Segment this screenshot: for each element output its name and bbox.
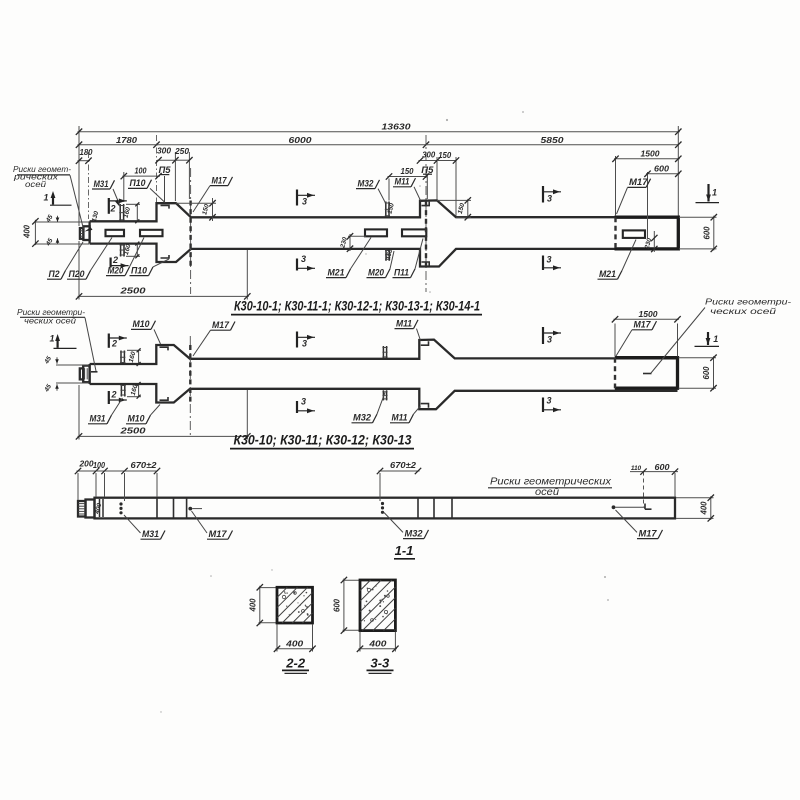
svg-text:150: 150 <box>386 202 396 215</box>
section mark 1 left view1 <box>52 196 54 205</box>
v3 joint line e <box>433 498 435 519</box>
svg-text:М32: М32 <box>358 178 375 189</box>
anchor bolt outer plate <box>83 226 89 240</box>
ext x616 up <box>615 156 617 172</box>
hook P5 top-left collar <box>161 205 170 208</box>
note underline <box>17 174 70 176</box>
ext x456 <box>455 157 457 216</box>
dimension 600 right top <box>646 173 680 175</box>
svg-text:М21: М21 <box>599 269 616 280</box>
slot M20 left <box>106 230 125 236</box>
svg-text:М17: М17 <box>212 175 228 186</box>
slot P10 left <box>140 230 163 236</box>
svg-text:200: 200 <box>78 460 94 469</box>
svg-text:400: 400 <box>23 224 32 239</box>
v3 bar outline <box>95 498 676 519</box>
v3 dim 100 <box>96 470 105 472</box>
svg-text:осей: осей <box>535 486 559 498</box>
svg-text:П11: П11 <box>394 267 409 278</box>
svg-text:1500: 1500 <box>641 149 661 158</box>
svg-text:600: 600 <box>332 598 341 612</box>
extension line right end x678 <box>677 126 679 216</box>
v2 ext x677 up <box>677 324 679 357</box>
section mark 3 lower-right <box>542 256 544 271</box>
v2 ext x247 bottom <box>246 390 248 440</box>
section mark 2 upper view1 <box>108 198 110 214</box>
svg-text:150: 150 <box>401 167 415 176</box>
svg-text:ческих осей: ческих осей <box>710 306 776 316</box>
v2 anchor bolt outer plate <box>83 366 89 383</box>
plate M31 above neck <box>119 204 121 221</box>
svg-text:300: 300 <box>422 150 436 159</box>
svg-text:К30-10; К30-11; К30-12; К30: К30-10; К30-11; К30-12; К30-13 <box>234 432 412 447</box>
dim 150 right of collar <box>467 199 469 219</box>
v2 joint right bold dashes <box>614 358 616 389</box>
v2 plate M32 below shaft <box>382 390 384 400</box>
v2 note leader to bolt <box>85 318 96 371</box>
v2 plate M31 below neck <box>120 384 122 397</box>
column right end face bold <box>615 217 679 249</box>
v2 bolt inner line <box>84 368 86 379</box>
v3 bolt ribbed head <box>78 501 86 517</box>
v2 ext left horizontals <box>56 364 89 366</box>
svg-text:400: 400 <box>700 501 709 516</box>
svg-text:3: 3 <box>546 396 551 406</box>
svg-text:100: 100 <box>135 167 148 176</box>
v3 dashed axis right <box>643 472 645 508</box>
anchor bolt head <box>80 228 84 239</box>
section 3-3 ext bottom <box>359 632 361 652</box>
svg-text:3: 3 <box>547 194 552 204</box>
dimension 100 neck <box>122 175 160 177</box>
dim 150 collar height <box>212 202 214 219</box>
svg-text:М31: М31 <box>142 529 159 540</box>
extension x175.4 <box>174 152 176 201</box>
svg-text:2500: 2500 <box>119 287 146 296</box>
svg-text:М32: М32 <box>353 413 372 424</box>
ext slotA bottom to 230 dim <box>348 235 366 237</box>
hook bottom-mid ledge <box>422 262 430 266</box>
v2 section mark 2 upper <box>108 334 110 348</box>
v2 hook bottom-left collar <box>160 397 169 400</box>
svg-text:670±2: 670±2 <box>131 461 158 470</box>
v2 section mark 3 upper-left <box>296 332 298 348</box>
svg-text:110: 110 <box>631 465 642 472</box>
v2 plate M31 above neck <box>120 351 122 365</box>
svg-text:45: 45 <box>43 383 53 394</box>
v2 ext x79 bottom <box>78 385 80 440</box>
svg-text:М17: М17 <box>639 528 658 539</box>
extension line x156.5 collar <box>156 135 158 202</box>
ext right end horizontals <box>679 216 717 218</box>
v2 tiny dim 45 upper <box>56 357 58 364</box>
dimension 6000 <box>157 144 427 146</box>
section 3-3 concrete hatch <box>360 580 371 591</box>
dimension 180 <box>78 160 91 162</box>
dimension 300 250 at left collar <box>157 159 177 161</box>
v2 note right leader <box>651 308 705 374</box>
svg-text:160: 160 <box>123 206 133 219</box>
svg-text:6000: 6000 <box>289 136 313 145</box>
svg-text:3: 3 <box>302 197 307 207</box>
svg-text:600: 600 <box>703 226 712 240</box>
v2 hook top-left collar <box>160 347 169 350</box>
section mark 3 upper-left <box>296 190 298 206</box>
joint mid bold dashes <box>425 202 427 267</box>
svg-text:М11: М11 <box>392 413 408 424</box>
v3 joint line b <box>173 498 175 519</box>
small dim 230 right slot <box>653 231 655 252</box>
svg-text:250: 250 <box>174 147 190 156</box>
svg-text:2: 2 <box>110 390 116 400</box>
svg-text:1500: 1500 <box>639 310 659 319</box>
svg-text:100: 100 <box>93 461 106 470</box>
v2 tiny dim 45 lower <box>56 384 58 391</box>
v2 dimension 1500 <box>614 318 680 320</box>
v3 ext right horizontals <box>676 497 714 499</box>
svg-text:М17: М17 <box>212 320 230 331</box>
v3 bolt flange <box>86 500 95 518</box>
svg-text:3-3: 3-3 <box>371 655 391 670</box>
small dim 230 mid slot <box>349 234 351 251</box>
svg-text:2: 2 <box>112 255 118 265</box>
section 3-3 rect <box>360 580 395 631</box>
svg-text:3: 3 <box>547 335 552 345</box>
dimension 13630 overall <box>78 131 680 133</box>
section mark 3 lower-left <box>296 259 298 271</box>
svg-text:150: 150 <box>201 203 211 216</box>
svg-text:13630: 13630 <box>382 123 412 132</box>
svg-text:600: 600 <box>702 366 711 380</box>
v2 ext right horizontals <box>679 357 717 359</box>
svg-text:1: 1 <box>43 193 48 203</box>
v2 anchor bolt head <box>80 368 83 379</box>
section 3-3 extension left <box>343 579 360 581</box>
section mark 3 upper-right <box>542 186 544 203</box>
ext M32 to dim <box>388 179 390 201</box>
svg-text:3: 3 <box>301 397 306 407</box>
section 2-2 ext bottom <box>276 625 278 652</box>
svg-text:400: 400 <box>285 639 304 648</box>
section 3-3 aggregate dots <box>372 589 374 591</box>
svg-text:М17: М17 <box>629 177 648 188</box>
slot P11 middle <box>402 229 426 236</box>
plate M20 below shaft <box>385 249 387 261</box>
svg-text:3: 3 <box>546 255 551 265</box>
dimension 1780 <box>78 144 159 146</box>
svg-text:45: 45 <box>44 237 54 248</box>
plate M32 above shaft <box>385 202 387 218</box>
hook top-mid ledge <box>422 202 430 206</box>
v3 ext verticals dims <box>77 473 79 500</box>
joint line left dash-dot axis <box>190 168 192 294</box>
svg-text:2: 2 <box>111 339 117 349</box>
slot P21 right <box>623 230 645 238</box>
extension line left end x79 <box>78 126 80 226</box>
paper specks <box>446 119 448 121</box>
note leader to bolt <box>70 175 84 229</box>
column K30-..-1 outline top edge <box>90 200 679 221</box>
dim 300 150 mid <box>419 160 439 162</box>
v2 hook top-mid ledge <box>421 341 429 345</box>
svg-text:45: 45 <box>44 214 54 225</box>
svg-text:осей: осей <box>25 180 47 189</box>
svg-text:П10: П10 <box>131 265 148 276</box>
v2 outline top edge <box>90 340 678 364</box>
v3 dim 670+-2 right <box>379 470 420 472</box>
v3 ext x380 <box>379 473 381 501</box>
svg-text:400: 400 <box>368 639 387 648</box>
v3 joint line f <box>451 498 453 519</box>
svg-text:П20: П20 <box>69 269 86 280</box>
v3 ext x675 up <box>674 473 676 497</box>
extension x88.5 for 180 <box>88 152 90 219</box>
v2 dimension 2500 <box>78 435 249 437</box>
svg-text:600: 600 <box>654 164 670 173</box>
svg-text:1: 1 <box>713 334 718 344</box>
dim 600 height right <box>713 216 715 251</box>
v2 dim 600 height right <box>713 356 715 390</box>
svg-text:2500: 2500 <box>119 427 146 436</box>
svg-text:1: 1 <box>712 188 717 198</box>
extension line x426 joint axis <box>425 135 427 292</box>
svg-text:150: 150 <box>438 151 452 160</box>
svg-text:2: 2 <box>109 204 115 214</box>
svg-text:1-1: 1-1 <box>395 543 414 558</box>
ext collar top to 150 dim <box>176 202 216 204</box>
svg-text:160: 160 <box>128 351 138 364</box>
section 2-2 extension left <box>259 587 278 589</box>
svg-text:600: 600 <box>655 463 671 472</box>
svg-text:М11: М11 <box>396 318 412 329</box>
v2 section mark 1 left <box>56 339 58 348</box>
v2 outline bottom edge <box>90 384 678 409</box>
v3 joint line d <box>417 498 419 519</box>
joint right bold dashes <box>614 217 616 249</box>
svg-text:М17: М17 <box>209 529 228 540</box>
svg-text:М21: М21 <box>328 267 345 278</box>
ext x247 bottom <box>246 250 248 300</box>
dimension 5850 <box>426 144 678 146</box>
tiny dim 45 lower <box>57 238 59 244</box>
svg-text:3: 3 <box>302 339 307 349</box>
svg-text:К30-10-1; К30-11-1; К30-12-1;: К30-10-1; К30-11-1; К30-12-1; К30-13-1; … <box>234 298 480 313</box>
dimension 1500 right <box>614 158 680 160</box>
section 2-2 square <box>277 587 313 623</box>
v3 dim 110 600 <box>630 471 678 473</box>
section mark 1 right <box>707 184 709 202</box>
svg-text:400: 400 <box>248 598 257 613</box>
svg-text:300: 300 <box>157 147 172 156</box>
v2 left closure <box>88 364 90 384</box>
bolt ribs <box>80 230 83 232</box>
svg-text:М11: М11 <box>395 177 410 188</box>
section 2-2 dim 400 vertical <box>259 586 261 625</box>
svg-text:180: 180 <box>80 148 94 157</box>
v2 plate M32 above shaft <box>382 346 384 358</box>
column K30-..-1 outline bottom edge <box>90 244 679 267</box>
svg-text:150: 150 <box>457 202 467 215</box>
section mark 2 bottom <box>109 258 111 268</box>
extension x189.4 <box>188 152 190 199</box>
dimension 2500 view1 <box>78 295 249 297</box>
ext plateau top right <box>437 199 471 201</box>
svg-text:М17: М17 <box>634 320 652 331</box>
joint left bold dashes <box>189 201 191 267</box>
ext x647.5 <box>647 172 649 238</box>
svg-text:М20: М20 <box>368 267 385 278</box>
v2 hook bottom-mid ledge <box>421 404 429 408</box>
ext shaft top right of collar <box>456 216 471 218</box>
svg-text:М31: М31 <box>94 179 109 190</box>
svg-text:670±2: 670±2 <box>390 461 417 470</box>
v2 right end face bold <box>615 358 678 389</box>
ext left horizontals <box>35 221 89 223</box>
left end closure <box>88 221 90 243</box>
section 2-2 concrete hatch <box>277 587 287 597</box>
tiny dim 45 upper <box>57 216 59 222</box>
v3 dim 200 <box>77 470 98 472</box>
svg-text:М10: М10 <box>133 319 151 330</box>
joint right dash axis ext <box>615 160 617 216</box>
dim 400 height left <box>34 220 36 245</box>
v3 riska mark right <box>645 504 652 510</box>
v2 section mark 3 lower-right <box>542 398 544 413</box>
v3 M32 anchor dots <box>381 502 384 505</box>
v2 joint axis thin <box>189 336 191 438</box>
svg-text:160: 160 <box>123 243 133 256</box>
svg-text:1780: 1780 <box>116 136 138 145</box>
v2 section mark 3 upper-right <box>542 327 544 344</box>
svg-text:2-2: 2-2 <box>285 655 306 670</box>
section 3-3 dim 400 bottom <box>359 648 397 650</box>
v3 inner verticals left <box>99 499 101 517</box>
v3 joint line c <box>186 498 188 519</box>
v3 joint line a <box>156 498 158 519</box>
v2 section mark 1 right <box>707 332 709 345</box>
v3 dim 670+-2 left <box>105 470 125 472</box>
svg-text:5850: 5850 <box>541 136 565 145</box>
v3 M31 anchor dots <box>119 502 122 505</box>
section 2-2 dim 400 bottom <box>276 648 315 650</box>
section 2-2 aggregate dots <box>286 592 287 593</box>
svg-text:М10: М10 <box>128 414 146 425</box>
svg-text:М31: М31 <box>90 414 106 425</box>
dim 150 to joint <box>388 176 428 178</box>
v2 section mark 3 lower-left <box>296 401 298 413</box>
hook bottom-left collar <box>161 255 170 258</box>
extension x123.8 <box>123 172 125 202</box>
v3 M17 rivet right <box>612 505 616 509</box>
svg-text:45: 45 <box>43 355 53 366</box>
v3 dim 400 height <box>710 496 712 520</box>
ext x437 <box>436 157 438 200</box>
svg-text:М32: М32 <box>405 528 424 539</box>
v3 M17 rivet left <box>188 507 192 511</box>
v2 section mark 2 lower <box>108 391 110 404</box>
v2 note underline <box>20 316 85 318</box>
svg-text:П2: П2 <box>49 269 61 280</box>
plate M31 below neck <box>120 244 122 257</box>
svg-text:230: 230 <box>339 236 349 250</box>
v2 ext x615 up <box>614 324 616 357</box>
svg-text:3: 3 <box>301 254 306 264</box>
slot M21 middle <box>365 229 387 236</box>
section 3-3 dim 600 vertical <box>343 579 345 633</box>
svg-text:1: 1 <box>49 334 54 344</box>
v2 joint left bold dashes <box>189 345 191 403</box>
svg-text:П10: П10 <box>130 178 147 189</box>
